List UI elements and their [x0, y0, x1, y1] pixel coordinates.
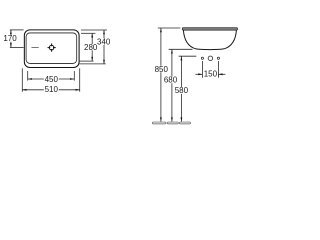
dimension 150 (holes): [195, 61, 225, 78]
dimension 170 (left): [10, 30, 24, 48]
svg-text:170: 170: [3, 34, 17, 43]
svg-text:450: 450: [45, 75, 59, 84]
svg-text:850: 850: [155, 65, 169, 74]
svg-text:150: 150: [204, 69, 218, 78]
centerline dash: [32, 47, 39, 49]
dimension 280 (right of plan, inner): [79, 33, 95, 61]
dimension 510 (below plan, outer): [22, 68, 79, 91]
dimension 580: [179, 56, 197, 121]
svg-text:510: 510: [45, 85, 59, 94]
svg-text:580: 580: [175, 86, 189, 95]
dimension 850: [158, 28, 181, 122]
svg-text:680: 680: [164, 76, 178, 85]
svg-text:340: 340: [97, 37, 111, 46]
rim bar: [182, 28, 237, 30]
bowl outline: [183, 30, 236, 49]
svg-text:280: 280: [84, 43, 98, 52]
dimension 450 (below plan, inner): [28, 71, 75, 81]
drain target symbol: [48, 44, 56, 52]
dimension 340 (far right of plan, outer): [79, 30, 107, 64]
basin outer rim (plan): [24, 30, 79, 68]
wall holes: two small + one big circle: [201, 56, 219, 61]
basin inner edge (plan): [26, 33, 77, 64]
dimension 680: [169, 49, 193, 121]
floor bar: [152, 122, 190, 124]
